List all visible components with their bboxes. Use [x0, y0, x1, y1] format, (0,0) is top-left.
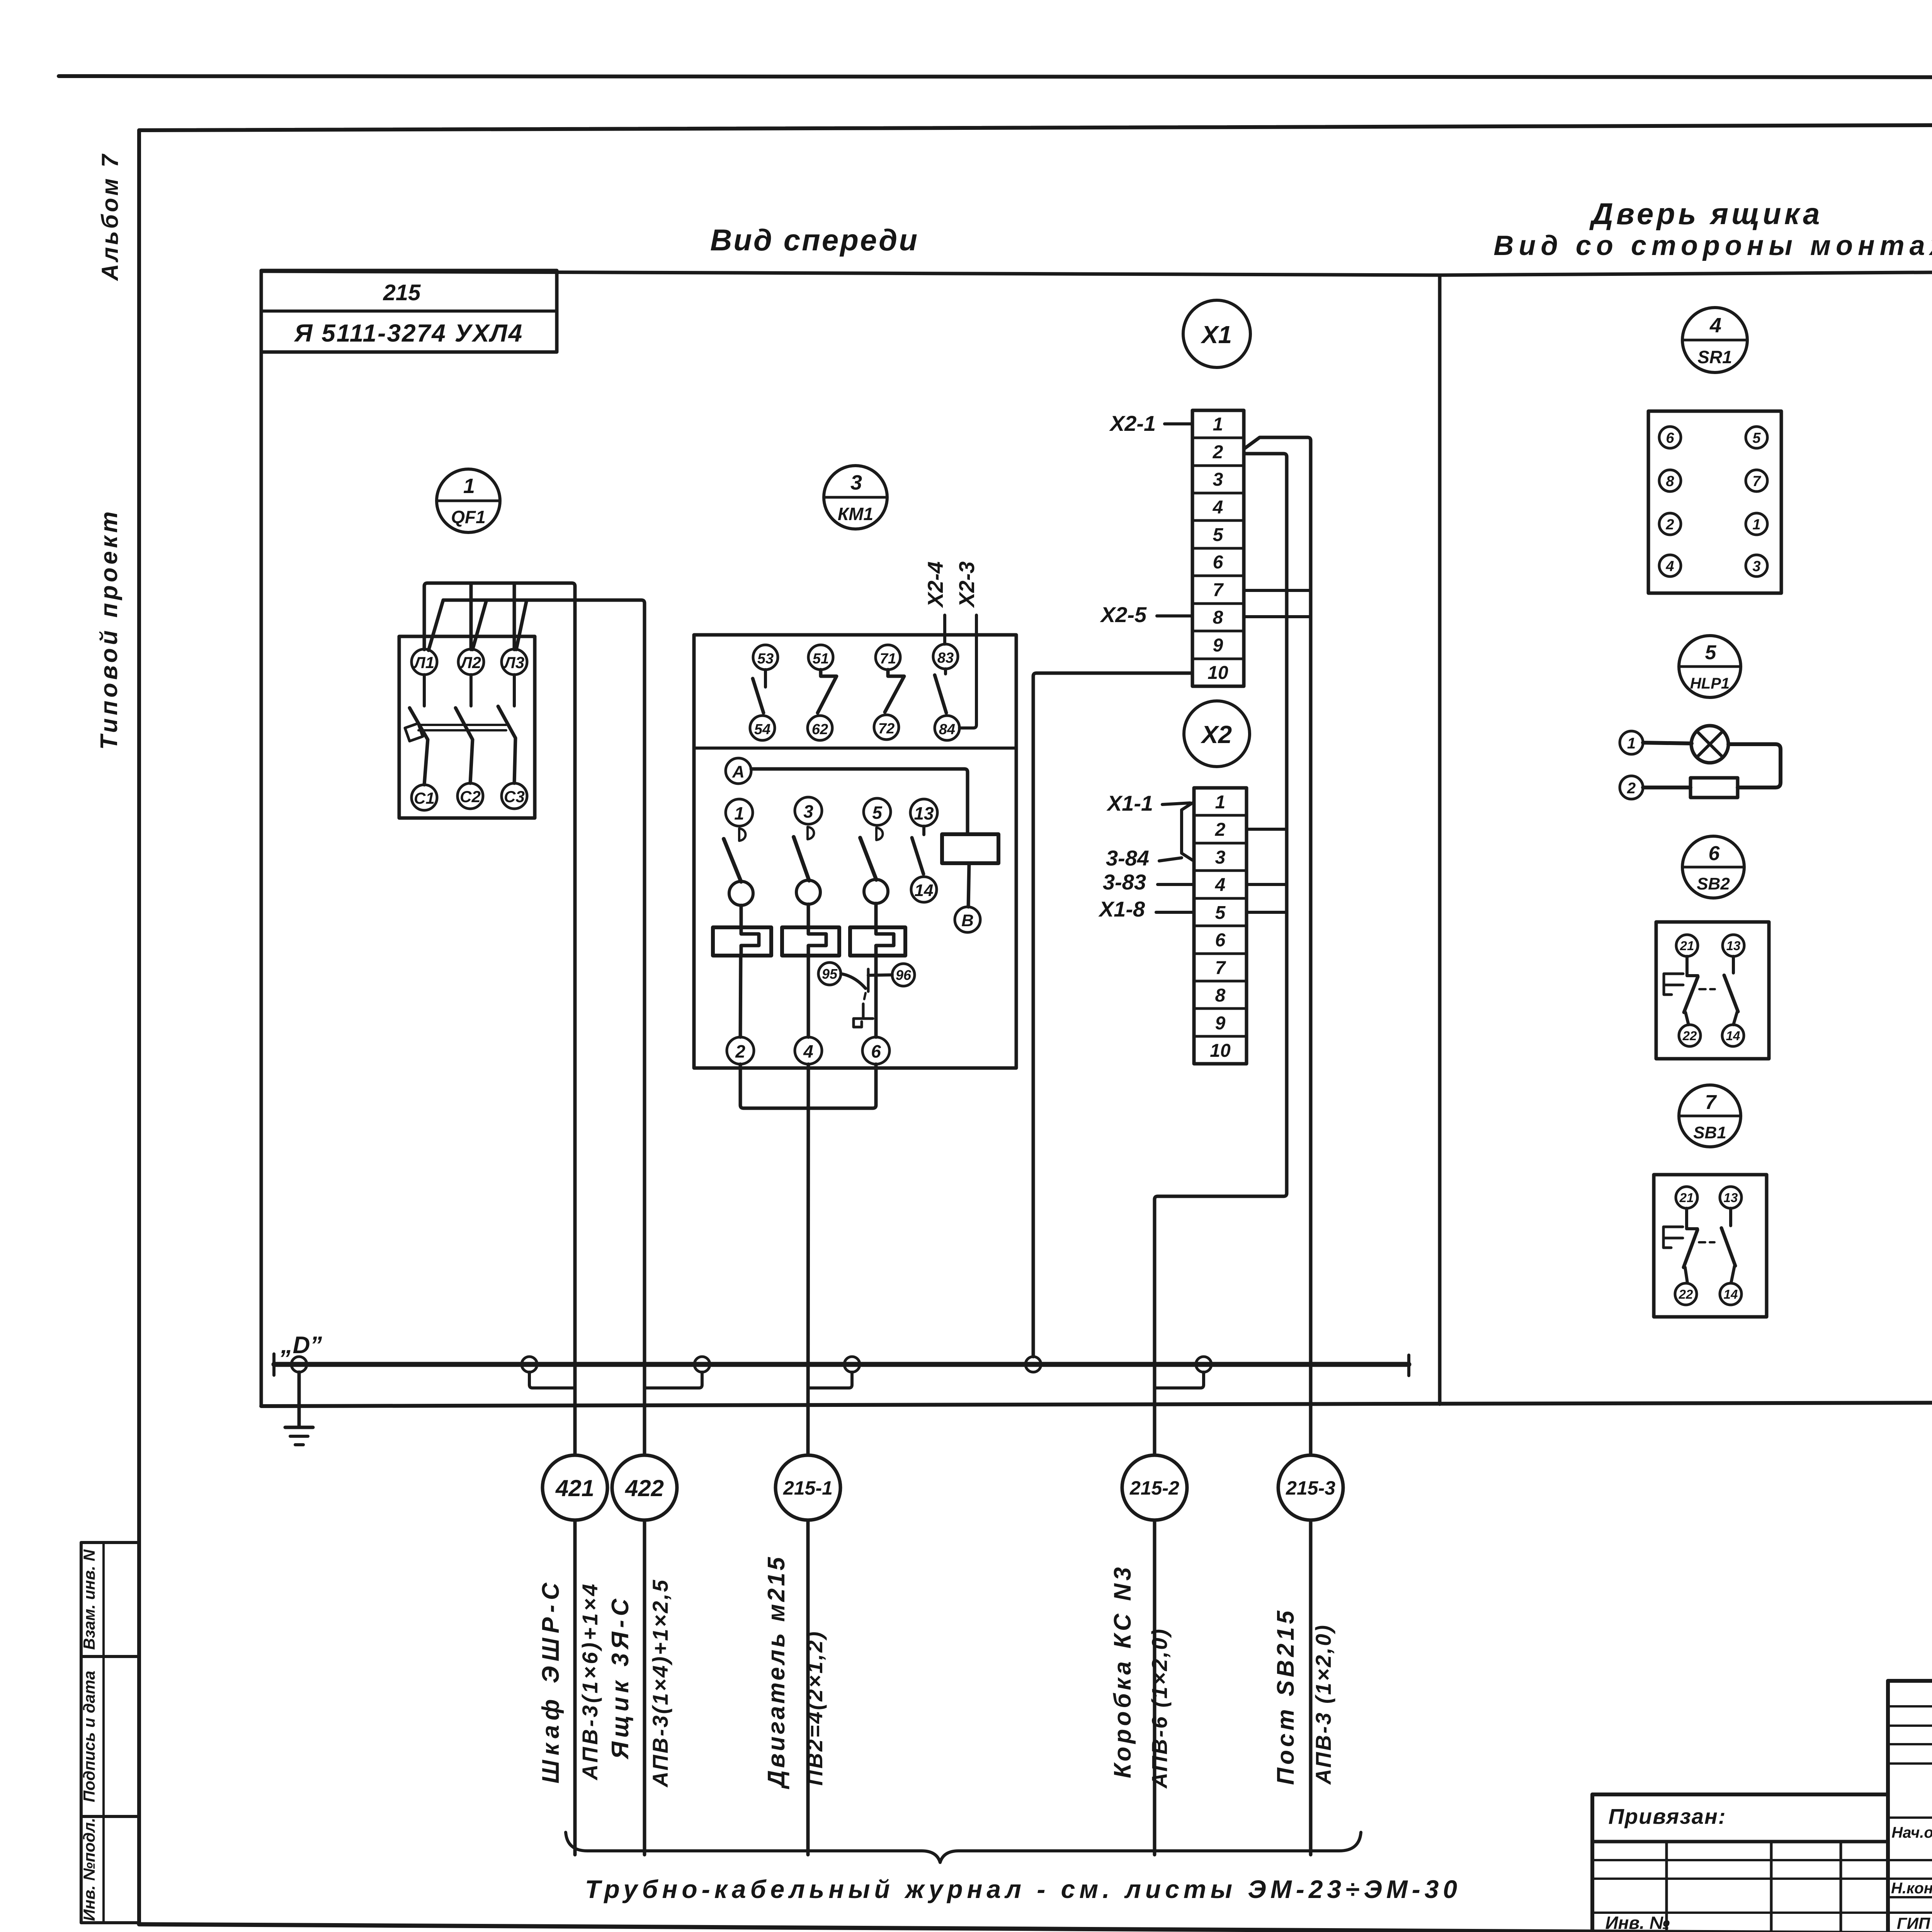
svg-text:8: 8: [1213, 607, 1223, 628]
signature row Нач.отд Зуйков: [1891, 1816, 1932, 1876]
svg-text:Вид со стороны монтажа: Вид со стороны монтажа: [1493, 230, 1932, 261]
wire terminal 1 to lamp: [1643, 743, 1692, 743]
svg-text:„D”: „D”: [281, 1332, 322, 1359]
cable 215-3 tail wire: [1309, 1520, 1313, 1855]
HLP1 terminal 1: [1620, 731, 1643, 754]
thermal relay element pole 5: [850, 927, 905, 956]
SR1 pin 1: [1746, 513, 1767, 535]
KM1 aux contact 83-84: [935, 669, 946, 713]
KM1 aux contact 51-62: [818, 670, 837, 713]
node on bus for X1 wire: [1026, 1357, 1041, 1372]
svg-text:1: 1: [734, 803, 744, 823]
svg-text:X1-1: X1-1: [1106, 791, 1153, 815]
HLP1 designator circle 5/HLP1: [1679, 636, 1741, 697]
signature row ГИП Полунцев: [1897, 1913, 1932, 1932]
QF1 pole 2 stub: [469, 675, 473, 706]
svg-text:Типовой проект: Типовой проект: [96, 509, 122, 750]
svg-text:1: 1: [1752, 517, 1760, 533]
HLP1 terminal 2: [1620, 776, 1643, 799]
SB2 NO contact 13-14: [1724, 956, 1738, 1025]
wire slant to Л3: [516, 600, 527, 650]
svg-text:6: 6: [871, 1041, 881, 1061]
svg-text:Я 5111-3274 УХЛ4: Я 5111-3274 УХЛ4: [294, 319, 523, 347]
svg-text:1: 1: [1627, 735, 1636, 752]
wire X2-3 from terminal 84: [959, 615, 976, 728]
wire pole 5 to terminal 6: [874, 956, 878, 1037]
label X2-1 at X1 row 1: [1109, 411, 1192, 435]
lamp HLP1: [1691, 726, 1728, 763]
KM1 terminal 6: [862, 1037, 889, 1064]
switch SR1 body: [1648, 411, 1781, 593]
cable 421 tail wire: [573, 1520, 577, 1855]
KM1 main terminal 3: [795, 797, 822, 824]
QF1 trip crossbar: [418, 725, 506, 730]
svg-text:HLP1: HLP1: [1690, 675, 1730, 692]
svg-text:7: 7: [1752, 473, 1761, 490]
terminal strip X2 body: [1194, 788, 1247, 1064]
svg-text:1: 1: [1215, 792, 1226, 813]
svg-text:215-2: 215-2: [1129, 1477, 1179, 1499]
QF1 terminal С1: [412, 785, 437, 810]
wire X1 row2 to cable 215-2: [1155, 454, 1287, 1455]
svg-text:7: 7: [1215, 958, 1226, 978]
SB2 button actuator: [1664, 974, 1715, 995]
svg-text:QF1: QF1: [451, 507, 485, 527]
KM1 aux terminal 51: [808, 645, 833, 670]
terminal strip X2 designator: [1184, 701, 1250, 767]
svg-text:84: 84: [939, 721, 955, 738]
SR1 pin 4: [1659, 555, 1681, 577]
QF1 pole 3 contact blade: [498, 706, 515, 783]
svg-text:С2: С2: [460, 787, 481, 806]
KM1 terminal B: [955, 907, 980, 932]
svg-text:14: 14: [1726, 1029, 1740, 1043]
svg-text:1: 1: [463, 474, 475, 498]
wire pole 1 to terminal 2: [740, 956, 741, 1037]
svg-text:2: 2: [1213, 442, 1223, 463]
svg-text:X2-5: X2-5: [1100, 602, 1147, 627]
svg-text:Трубно-кабельный журнал - см.: Трубно-кабельный журнал - см. листы ЭМ-2…: [585, 1875, 1461, 1903]
svg-text:6: 6: [1709, 842, 1720, 865]
QF1 terminal Л1: [412, 649, 437, 675]
KM1 pole 5 link stub: [874, 903, 878, 927]
KM1 aux terminal 13: [910, 799, 937, 826]
KM1 pole 5 head mark: [876, 828, 883, 840]
KM1 aux terminal 54: [750, 716, 775, 740]
svg-text:3: 3: [1215, 847, 1226, 868]
svg-text:4: 4: [1215, 875, 1226, 895]
node on bus for 215-2: [1196, 1357, 1211, 1372]
svg-text:X1: X1: [1201, 321, 1232, 349]
label 3-83 at X2 row 4: [1103, 870, 1194, 894]
svg-text:3: 3: [850, 471, 862, 494]
svg-text:Альбом 7: Альбом 7: [97, 152, 123, 282]
SB1 button actuator: [1663, 1227, 1714, 1248]
top rule line: [59, 76, 1932, 78]
cable 215-2 tail wire: [1153, 1520, 1156, 1855]
wire coil to B: [968, 863, 969, 907]
svg-text:71: 71: [880, 651, 896, 667]
svg-text:22: 22: [1682, 1029, 1697, 1043]
door box: [1440, 272, 1932, 1404]
svg-text:3-83: 3-83: [1103, 870, 1146, 894]
svg-text:9: 9: [1215, 1013, 1226, 1034]
svg-text:Инв. №подл.: Инв. №подл.: [80, 1818, 98, 1921]
svg-text:22: 22: [1679, 1287, 1693, 1301]
svg-text:421: 421: [555, 1475, 594, 1501]
svg-text:Вид спереди: Вид спереди: [710, 223, 919, 257]
wire terminal 6 drop: [808, 1064, 876, 1108]
QF1 pole 1 stub: [423, 675, 426, 706]
svg-text:5: 5: [1213, 525, 1224, 545]
svg-text:5: 5: [1705, 641, 1717, 664]
SB1 NO contact 13-14: [1721, 1208, 1735, 1283]
svg-text:X2-4: X2-4: [923, 561, 947, 608]
svg-text:9: 9: [1213, 635, 1223, 656]
SB2 pin 21: [1676, 935, 1698, 956]
KM1 pole 5 blade: [860, 838, 876, 880]
wire slant to Л2: [473, 600, 486, 650]
wire X2 row4 stub: [1247, 883, 1287, 886]
KM1 aux terminal 14: [911, 877, 937, 902]
SB1 designator circle 7/SB1: [1679, 1085, 1741, 1147]
svg-text:Пост SВ215: Пост SВ215: [1272, 1608, 1299, 1785]
bus hook to cable 422: [645, 1372, 702, 1388]
wire drop to Л3: [513, 583, 516, 650]
svg-text:Л2: Л2: [460, 653, 481, 672]
svg-text:6: 6: [1666, 430, 1674, 446]
thermal NC contact 95-96: [841, 969, 892, 992]
svg-text:83: 83: [937, 650, 954, 666]
thermal terminal 95: [818, 963, 841, 985]
label X1-8 at X2 row 5: [1098, 897, 1194, 921]
svg-text:АПВ-3 (1×2,0): АПВ-3 (1×2,0): [1311, 1624, 1335, 1785]
bus hook to cable 215-1: [808, 1372, 852, 1388]
svg-text:4: 4: [1709, 314, 1721, 337]
KM1 aux terminal 53: [753, 645, 778, 670]
wire X1 row8 stub: [1244, 615, 1311, 618]
node on bus for 215-1: [844, 1357, 860, 1372]
title block revision grid: [1592, 1842, 1888, 1932]
svg-text:3: 3: [1213, 469, 1223, 490]
wire terminal 4 to cable 215-1: [808, 1064, 808, 1455]
bus hook to cable 421: [529, 1372, 575, 1388]
svg-text:3: 3: [1752, 558, 1760, 575]
svg-text:5: 5: [1215, 903, 1226, 923]
svg-text:X2-3: X2-3: [954, 561, 979, 608]
node on bus for 422: [694, 1357, 710, 1372]
KM1 terminal 2: [727, 1037, 754, 1064]
KM1 pole 3 blade: [794, 837, 809, 881]
svg-text:72: 72: [878, 721, 895, 737]
cable 215-1 tail wire: [806, 1520, 810, 1855]
SB2 NC contact 21-22: [1684, 956, 1698, 1025]
KM1 aux terminal 62: [808, 716, 832, 740]
svg-text:Взам. инв. N: Взам. инв. N: [80, 1549, 98, 1650]
svg-text:21: 21: [1679, 1190, 1694, 1205]
wire A to coil: [751, 769, 968, 834]
resistor: [1690, 778, 1738, 798]
cable 422 tail wire: [643, 1520, 646, 1855]
brace under cables: [566, 1832, 1361, 1862]
label X1-1 at X2 row 1: [1106, 791, 1190, 815]
KM1 pole 5 mechanism circle: [864, 879, 888, 903]
cable circle 421: [543, 1455, 607, 1520]
svg-text:2: 2: [1215, 820, 1226, 840]
svg-text:SB1: SB1: [1693, 1123, 1726, 1142]
title block privyazan box: [1592, 1794, 1888, 1931]
svg-text:13: 13: [1726, 939, 1741, 953]
front view box: [261, 271, 1932, 1406]
SB2 designator circle 6/SB2: [1682, 836, 1744, 898]
svg-text:SR1: SR1: [1697, 347, 1732, 367]
cable circle 215-1: [776, 1455, 840, 1520]
svg-text:13: 13: [914, 803, 934, 823]
cable circle 422: [612, 1455, 677, 1520]
wire X1 row10 to bus node: [1033, 673, 1192, 1357]
svg-text:51: 51: [813, 651, 829, 667]
wire X1 row1 to cable 215-3: [1244, 437, 1311, 1455]
svg-text:5: 5: [872, 803, 883, 823]
KM1 pole 1 head mark: [739, 828, 746, 841]
svg-text:215-3: 215-3: [1286, 1477, 1335, 1499]
wire X2-4 from terminal 83: [943, 615, 946, 644]
svg-text:SB2: SB2: [1697, 874, 1730, 893]
SB1 pin 13: [1720, 1187, 1742, 1208]
thermal terminal 96: [892, 964, 915, 986]
svg-text:7: 7: [1213, 580, 1224, 600]
QF1 terminal Л3: [502, 649, 527, 675]
cable circle 215-2: [1122, 1455, 1187, 1520]
thermal reset link: [854, 993, 873, 1027]
cable circle 215-3: [1278, 1455, 1343, 1520]
svg-text:6: 6: [1213, 552, 1223, 573]
svg-text:2: 2: [1665, 517, 1674, 533]
KM1 pole 3 mechanism circle: [796, 880, 820, 904]
thermal relay element pole 3: [782, 927, 839, 956]
svg-text:2: 2: [735, 1041, 745, 1061]
svg-text:8: 8: [1215, 985, 1226, 1006]
SR1 pin 3: [1746, 555, 1767, 577]
KM1 terminal 4: [795, 1037, 822, 1064]
svg-text:13: 13: [1724, 1190, 1738, 1205]
svg-text:Н.контр.: Н.контр.: [1891, 1880, 1932, 1897]
QF1 terminal С3: [502, 783, 527, 809]
wire X1 row7 stub: [1244, 589, 1311, 592]
node on bus for 421: [522, 1357, 537, 1372]
svg-text:215-1: 215-1: [783, 1477, 833, 1499]
push button SB1 body: [1654, 1175, 1767, 1317]
svg-text:АПВ-3(1×6)+1×4: АПВ-3(1×6)+1×4: [578, 1582, 602, 1781]
terminal strip X1 body: [1192, 410, 1244, 686]
SR1 designator circle 4/SR1: [1682, 308, 1747, 372]
KM1 aux terminal 84: [935, 716, 959, 740]
SR1 pin 5: [1746, 427, 1767, 448]
svg-text:54: 54: [754, 721, 770, 738]
wire feed 2 to QF1 and cable 422: [429, 600, 645, 1455]
svg-text:4: 4: [1665, 558, 1674, 575]
circuit breaker QF1 body: [399, 636, 535, 818]
KM1 contact 13-14 blade: [912, 826, 924, 874]
SB2 pin 22: [1679, 1025, 1701, 1046]
SR1 pin 2: [1659, 513, 1681, 535]
terminal strip X1 designator: [1183, 300, 1250, 367]
svg-text:АПВ-6 (1×2,0): АПВ-6 (1×2,0): [1147, 1628, 1172, 1789]
wire resistor to terminal 2: [1643, 786, 1690, 789]
svg-text:7: 7: [1705, 1091, 1717, 1114]
svg-text:Инв. №: Инв. №: [1605, 1913, 1670, 1932]
push button SB2 body: [1656, 922, 1769, 1059]
svg-text:96: 96: [896, 967, 912, 983]
SB2 pin 14: [1722, 1025, 1744, 1046]
svg-text:Коробка КС N3: Коробка КС N3: [1109, 1564, 1136, 1778]
svg-text:10: 10: [1210, 1041, 1231, 1061]
QF1 terminal С2: [457, 783, 483, 809]
svg-text:4: 4: [1213, 497, 1223, 518]
wire pole 3 to terminal 4: [807, 956, 810, 1037]
bus hook to cable 215-2: [1155, 1372, 1204, 1388]
contactor KM1 body: [694, 635, 1016, 1068]
svg-text:АПВ-3(1×4)+1×2,5: АПВ-3(1×4)+1×2,5: [648, 1578, 672, 1788]
svg-text:В: В: [961, 911, 974, 930]
svg-text:Дверь ящика: Дверь ящика: [1589, 197, 1823, 231]
ground symbol: [285, 1427, 313, 1445]
svg-text:14: 14: [915, 881, 934, 900]
thermal relay element pole 1: [713, 927, 771, 956]
wire feed 1 to QF1 and cable 421: [424, 583, 575, 1455]
svg-text:X2: X2: [1201, 721, 1232, 748]
svg-text:21: 21: [1680, 939, 1694, 953]
KM1 pole 3 head mark: [808, 827, 814, 839]
KM1 aux terminal 71: [876, 645, 900, 670]
type label box 215 / Я 5111-3274 УХЛ4: [261, 270, 557, 352]
svg-text:14: 14: [1724, 1287, 1738, 1301]
left margin stamp boxes: [81, 1543, 139, 1923]
svg-text:95: 95: [822, 966, 838, 982]
wire drop to Л2: [469, 583, 473, 650]
svg-text:ПВ2=4(2×1,2): ПВ2=4(2×1,2): [803, 1630, 827, 1786]
SB1 NC contact 21-22: [1684, 1208, 1697, 1283]
svg-text:215: 215: [383, 280, 421, 305]
svg-text:6: 6: [1215, 930, 1226, 951]
neutral bus 0: [274, 1354, 1409, 1376]
KM1 designator circle 3/КМ1: [824, 466, 887, 529]
QF1 terminal Л2: [458, 649, 484, 675]
QF1 pole 3 stub: [513, 675, 516, 706]
SB1 pin 21: [1676, 1187, 1697, 1208]
svg-text:3: 3: [803, 801, 813, 821]
svg-text:С1: С1: [414, 789, 435, 807]
SB1 pin 22: [1675, 1283, 1697, 1305]
ground wire: [298, 1372, 301, 1427]
wire X2 row2 stub: [1247, 828, 1287, 831]
KM1 aux terminal 72: [874, 715, 899, 740]
KM1 main terminal 5: [864, 798, 891, 825]
jumper X2 rows 1-3: [1182, 803, 1192, 860]
KM1 aux terminal 83: [933, 644, 958, 669]
svg-text:Шкаф ЭШР-С: Шкаф ЭШР-С: [537, 1578, 564, 1783]
svg-text:А: А: [732, 762, 745, 781]
QF1 designator circle 1/QF1: [437, 469, 500, 532]
svg-text:ГИП: ГИП: [1897, 1914, 1930, 1932]
svg-text:Привязан:: Привязан:: [1609, 1804, 1726, 1828]
signature row Н.контр Полунцев: [1891, 1877, 1932, 1897]
wire terminal 2 drop: [740, 1064, 808, 1108]
ground node on bus: [291, 1357, 307, 1372]
svg-text:5: 5: [1752, 430, 1761, 446]
QF1 pole 2 contact blade: [456, 708, 473, 783]
KM1 pole 1 mechanism circle: [729, 881, 753, 905]
wire lamp to resistor: [1728, 744, 1781, 787]
svg-text:X1-8: X1-8: [1098, 897, 1145, 921]
SB2 pin 13: [1723, 935, 1744, 956]
svg-text:Л1: Л1: [413, 653, 434, 672]
KM1 aux contact 71-72: [885, 670, 904, 712]
SR1 pin 6: [1659, 427, 1681, 448]
KM1 aux contact 53-54: [753, 670, 765, 713]
KM1 pole 1 blade: [724, 839, 741, 882]
svg-text:10: 10: [1207, 663, 1228, 683]
SR1 pin 8: [1659, 470, 1681, 492]
title block signature grid: [1888, 1681, 1932, 1932]
KM1 coil: [942, 834, 998, 863]
svg-text:62: 62: [812, 721, 828, 738]
svg-text:2: 2: [1627, 780, 1636, 797]
svg-text:4: 4: [803, 1041, 813, 1061]
SR1 pin 7: [1746, 470, 1767, 492]
QF1 latch square: [405, 723, 423, 741]
KM1 terminal A: [726, 758, 751, 784]
SB1 pin 14: [1720, 1283, 1742, 1305]
svg-text:3-84: 3-84: [1106, 846, 1149, 870]
KM1 pole 3 link stub: [807, 904, 810, 927]
svg-text:Л3: Л3: [503, 653, 524, 672]
label X2-5 at X1 row 8: [1100, 602, 1192, 627]
svg-text:КМ1: КМ1: [838, 504, 873, 524]
QF1 pole 1 contact blade: [410, 708, 428, 785]
svg-text:1: 1: [1213, 414, 1223, 435]
svg-text:Подпись и дата: Подпись и дата: [80, 1671, 98, 1802]
svg-text:X2-1: X2-1: [1109, 411, 1156, 435]
KM1 main terminal 1: [726, 799, 753, 826]
svg-text:422: 422: [625, 1475, 664, 1501]
svg-text:Двигатель м215: Двигатель м215: [763, 1555, 790, 1789]
svg-text:53: 53: [757, 651, 774, 667]
svg-text:С3: С3: [504, 787, 525, 806]
wire X2 row5 stub: [1247, 911, 1287, 914]
KM1 pole 1 link stub: [740, 905, 743, 927]
label 3-84 at X2 row 3: [1106, 846, 1182, 870]
svg-text:Нач.отд.: Нач.отд.: [1891, 1824, 1932, 1841]
svg-text:Ящик 3Я-С: Ящик 3Я-С: [607, 1595, 634, 1760]
KM1 internal divider: [694, 747, 1016, 750]
svg-text:8: 8: [1666, 473, 1674, 490]
